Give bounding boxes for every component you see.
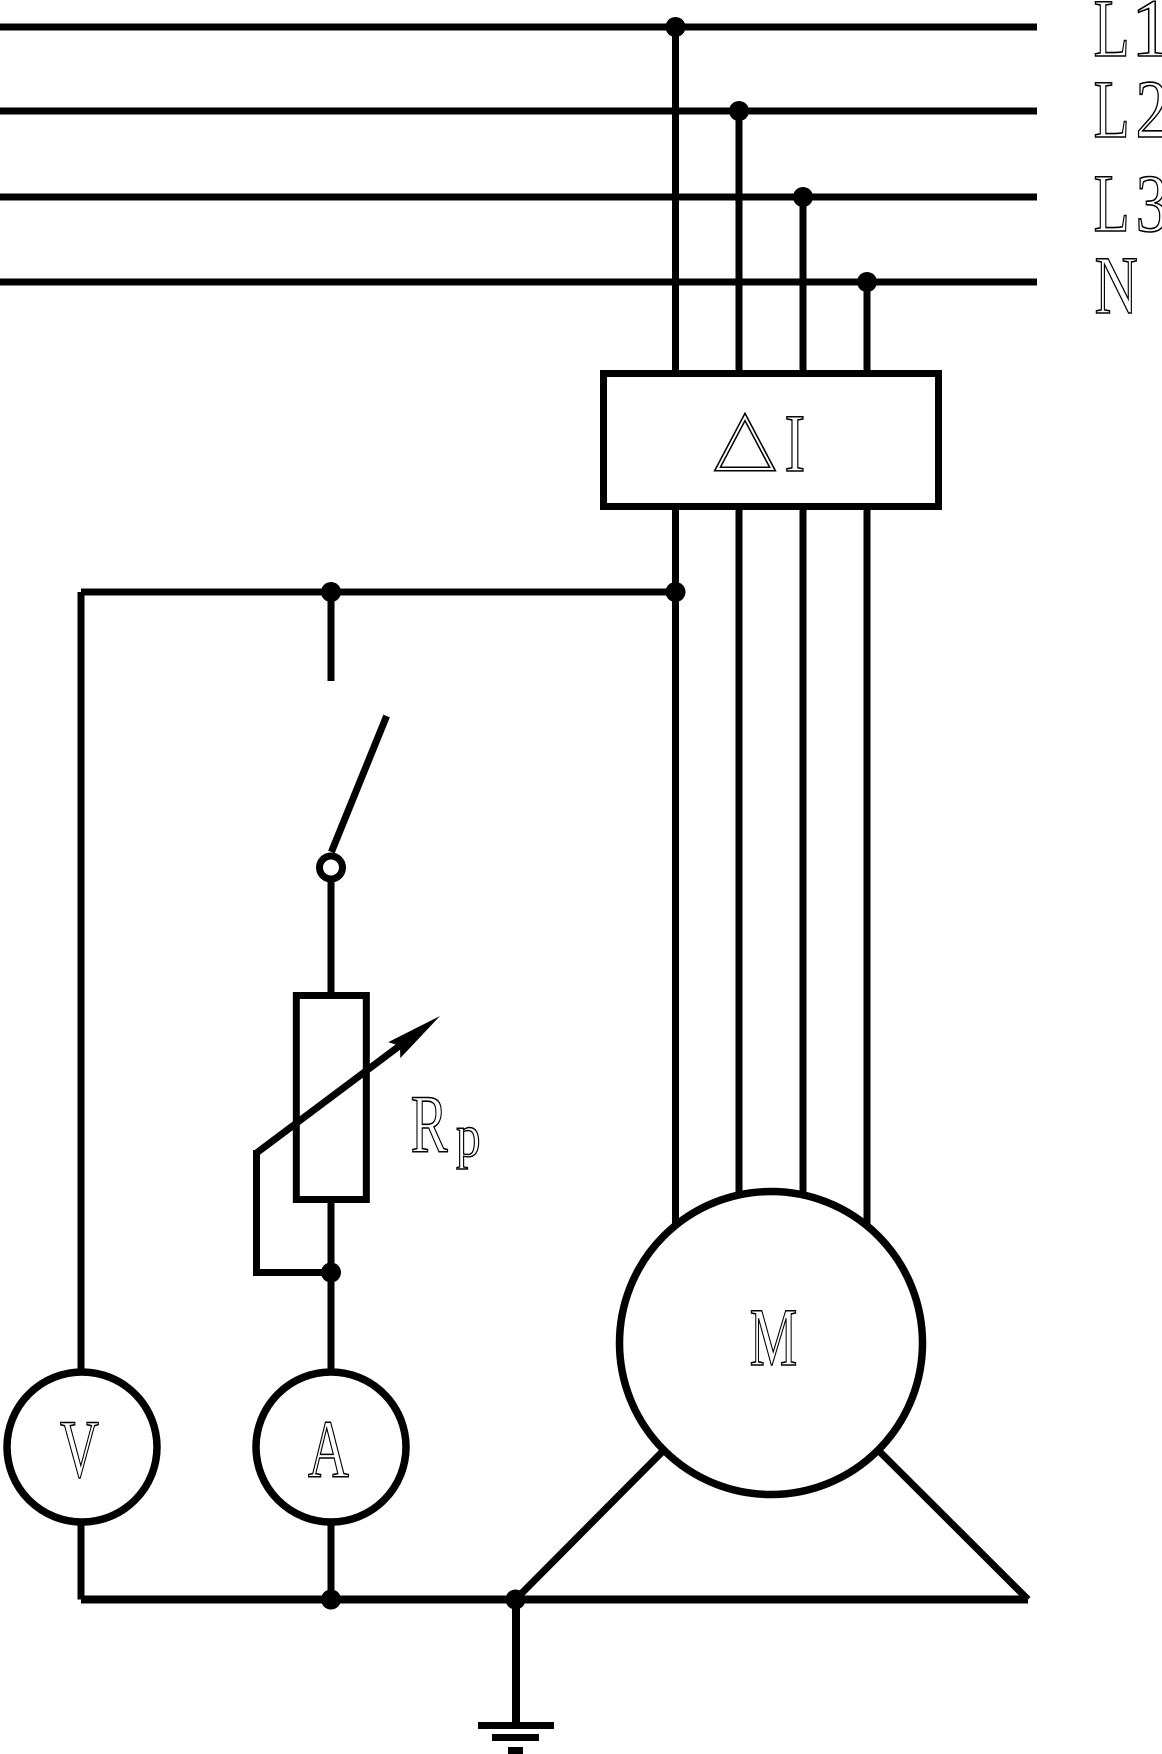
label L3 xyxy=(1094,157,1162,250)
wire L2 drop to RCD and motor xyxy=(736,111,743,1200)
ammeter A1 circle xyxy=(256,1372,406,1522)
label L1 xyxy=(1094,0,1162,75)
svg-text:R: R xyxy=(411,1079,448,1171)
ground bar 3 xyxy=(508,1747,523,1754)
motor M1 circle xyxy=(620,1192,923,1495)
wire L3 drop to RCD and motor xyxy=(800,197,807,1200)
ground bar 1 xyxy=(478,1722,554,1729)
switch S1 blade xyxy=(331,716,386,852)
rheostat Rp wiper arrow shaft xyxy=(257,1044,403,1153)
wire N drop to RCD and motor xyxy=(864,282,871,1230)
rheostat Rp body xyxy=(296,996,366,1200)
wire L2 bus line xyxy=(0,108,1037,115)
node junction ammeter bottom xyxy=(321,1590,341,1610)
wire top horizontal of measuring branch xyxy=(81,589,676,596)
switch S1 hinge circle xyxy=(320,856,343,879)
svg-text:A: A xyxy=(308,1405,349,1496)
wire N bus line xyxy=(0,279,1037,286)
node junction L2 drop xyxy=(729,101,749,121)
svg-text:L: L xyxy=(1094,63,1130,155)
svg-text:V: V xyxy=(60,1405,99,1496)
label L2 xyxy=(1094,63,1162,156)
wire L1 drop to RCD and motor xyxy=(672,27,679,1230)
node junction L3 drop xyxy=(793,187,813,207)
svg-text:2: 2 xyxy=(1136,64,1162,156)
node junction N drop xyxy=(857,272,877,292)
rheostat Rp wiper arrowhead xyxy=(388,1016,440,1058)
label delta of RCD xyxy=(718,417,773,469)
svg-text:M: M xyxy=(750,1292,797,1384)
wire L1 bus line xyxy=(0,24,1037,31)
svg-text:N: N xyxy=(1095,240,1138,332)
wire switch stem xyxy=(328,592,335,681)
motor stand left leg xyxy=(516,1450,664,1599)
svg-text:3: 3 xyxy=(1136,158,1162,250)
node junction ground tap xyxy=(506,1590,526,1610)
svg-text:p: p xyxy=(456,1102,481,1169)
wire bottom rail xyxy=(81,1596,1028,1604)
voltmeter V1 circle xyxy=(7,1372,157,1522)
wire L3 bus line xyxy=(0,194,1037,201)
ground bar 2 xyxy=(492,1734,539,1741)
wire rheostat to ammeter xyxy=(328,1199,335,1371)
wire switch to rheostat xyxy=(328,882,335,995)
wire ammeter to bottom rail xyxy=(328,1523,335,1600)
node junction wiper return xyxy=(321,1263,341,1283)
wire left vertical to voltmeter xyxy=(78,592,85,1371)
svg-text:I: I xyxy=(785,397,806,489)
svg-text:L: L xyxy=(1094,157,1130,249)
node junction measuring branch to L1 drop xyxy=(666,582,686,602)
wire wiper return bend xyxy=(257,1150,332,1273)
node junction L1 drop xyxy=(666,17,686,37)
motor stand right leg xyxy=(878,1450,1028,1599)
ground stem xyxy=(512,1600,520,1723)
RCD box U1 xyxy=(604,374,939,507)
node junction switch branch top xyxy=(321,582,341,602)
wire voltmeter to bottom rail xyxy=(78,1523,85,1600)
